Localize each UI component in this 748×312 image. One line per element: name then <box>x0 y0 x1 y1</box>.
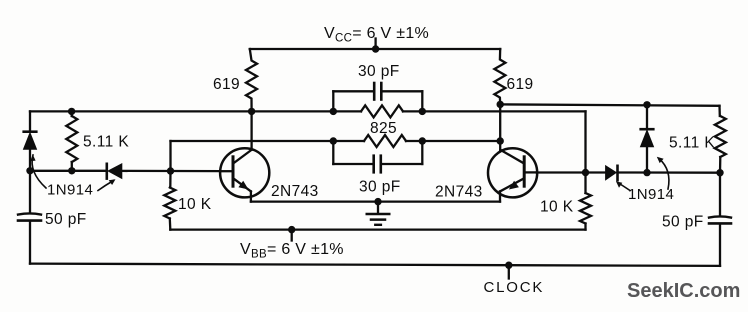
wire: clock label tick <box>508 265 510 278</box>
node: clock tap <box>505 262 512 269</box>
wire: right base rail inner <box>537 171 606 173</box>
svg-text:825: 825 <box>370 120 397 137</box>
wire: bottom cap loop left arm <box>333 163 373 165</box>
wire: Vcc supply rail <box>250 48 500 50</box>
wire: D4 upper segment <box>646 105 648 128</box>
resistor R6 825 (bottom coupling) <box>364 135 406 147</box>
svg-text:1N914: 1N914 <box>628 186 674 203</box>
resistor R8 10K (right base bias) <box>580 193 591 224</box>
wire: Vbb label tick <box>291 230 293 241</box>
wire: Q2 collector riser <box>499 104 501 149</box>
svg-text:30 pF: 30 pF <box>358 63 400 80</box>
node: Vbb tap <box>288 226 295 233</box>
diode D2 1N914 (left series, pointing left) <box>107 164 122 179</box>
wire: bottom cap loop left leg <box>332 141 334 164</box>
transistor Q1 2N743 <box>220 148 269 197</box>
svg-text:2N743: 2N743 <box>435 184 483 201</box>
wire: left clamp to cap <box>29 171 31 213</box>
transistor Q2 2N743 <box>488 148 537 197</box>
wire: R2 top lead <box>70 111 73 116</box>
wire: R7 bottom lead <box>719 157 722 173</box>
resistor R5 10K (left base bias) <box>164 188 175 219</box>
node: ground junction <box>374 198 381 205</box>
wire: bottom cap loop right arm <box>381 163 423 165</box>
svg-text:1N914: 1N914 <box>47 182 93 199</box>
wire: R5 bottom lead <box>169 219 172 230</box>
node: Q2 collector junction <box>497 101 504 108</box>
arrow: left 1N914 label to D2 <box>98 179 116 190</box>
capacitor C2 30pF (top coupling) <box>373 83 376 100</box>
wire: right clamp lower segment <box>719 224 721 266</box>
node: top loop left junction <box>330 108 337 115</box>
svg-text:10 K: 10 K <box>178 196 212 213</box>
diode D1 1N914 (left vertical clamp) <box>24 132 37 150</box>
svg-text:50 pF: 50 pF <box>662 214 704 231</box>
wire: right clamp upper segment <box>718 106 721 116</box>
wire: left clamp mid segment <box>29 149 31 171</box>
svg-text:5.11 K: 5.11 K <box>83 134 129 151</box>
arrow: left 1N914 label to D1 <box>30 155 46 188</box>
wire: top cap loop right leg <box>421 91 423 111</box>
resistor R2 5.11K (left) <box>66 116 77 162</box>
wire: bottom cap loop right leg <box>421 141 423 164</box>
wire: top cap loop left arm <box>333 90 374 92</box>
wire: left clamp lower segment <box>29 222 31 264</box>
wire: left base rail inner <box>122 170 221 173</box>
wire: right clamp to cap <box>719 173 721 216</box>
node: Q2 collector coupling junction <box>497 137 504 144</box>
wire: R5 top lead <box>169 171 171 188</box>
capacitor C1 50pF (left) <box>18 213 41 220</box>
wire: R8 top lead <box>584 173 586 194</box>
svg-text:SeekIC.com: SeekIC.com <box>627 280 740 302</box>
node: R2 bottom junction <box>68 167 75 174</box>
wire: R8 bottom lead <box>584 224 586 230</box>
wire: right base rail outer <box>618 171 720 173</box>
resistor R4 619 (right collector load) <box>494 49 505 104</box>
node: bottom loop left junction <box>330 137 337 144</box>
wire: Vcc label tick <box>374 39 376 50</box>
node: D4 top junction <box>643 101 650 108</box>
svg-text:619: 619 <box>507 76 534 93</box>
resistor R3 825 (top coupling) <box>361 105 403 117</box>
wire: left clamp upper segment <box>29 111 31 130</box>
ground symbol <box>367 202 389 225</box>
node: right clamp junction <box>716 169 723 176</box>
svg-text:CLOCK: CLOCK <box>484 279 545 296</box>
arrow: right 1N914 label to D3 <box>616 181 630 190</box>
node: bottom loop right junction <box>419 137 426 144</box>
wire: top cap loop right arm <box>381 90 422 92</box>
wire: left base rail outer <box>30 170 107 172</box>
node: left clamp junction <box>26 167 33 174</box>
wire: bottom coupling rail right <box>406 140 500 142</box>
wire: Vbb supply rail <box>170 228 585 230</box>
wire: emitter rail <box>251 200 500 202</box>
node: R2 top junction <box>68 108 75 115</box>
resistor R1 619 (left collector load) <box>246 49 257 111</box>
svg-text:619: 619 <box>213 76 240 93</box>
wire: bottom coupling rail left <box>171 140 365 142</box>
wire: top cap loop left leg <box>332 91 334 111</box>
svg-text:2N743: 2N743 <box>271 183 319 200</box>
wire: Q1 collector riser <box>250 111 252 149</box>
resistor R7 5.11K (right) <box>715 116 726 157</box>
wire: Q2 emitter drop <box>499 191 501 201</box>
svg-text:10 K: 10 K <box>540 199 574 216</box>
wire: right collector rail to clamp <box>500 104 719 105</box>
capacitor C4 50pF (right) <box>709 216 731 223</box>
wire: Q1 emitter drop <box>250 191 252 201</box>
svg-text:50 pF: 50 pF <box>45 211 87 228</box>
node: Q2 base junction <box>582 169 589 176</box>
wire: drop to Q2 base node <box>584 111 586 172</box>
wire: R2 bottom lead <box>71 162 73 171</box>
wire: D4 lower segment <box>646 147 648 173</box>
diode D4 1N914 (right vertical clamp) <box>641 129 654 147</box>
wire: left collector rail <box>30 110 361 112</box>
arrow: right 1N914 label to D4 <box>657 157 669 189</box>
svg-text:30 pF: 30 pF <box>359 179 401 196</box>
wire: riser from Q1 base node <box>169 141 171 171</box>
diode D3 1N914 (right series, pointing right) <box>606 166 618 180</box>
node: D4 bottom junction <box>643 169 650 176</box>
node: Q1 collector junction <box>248 108 255 115</box>
node: top loop right junction <box>419 108 426 115</box>
svg-text:5.11 K: 5.11 K <box>669 135 715 152</box>
wire: top coupling rail to Q2 base <box>403 110 586 112</box>
node: Vcc tap <box>372 45 379 52</box>
wire: bottom output rail <box>30 264 720 266</box>
node: Q1 base junction <box>167 167 174 174</box>
capacitor C3 30pF (bottom coupling) <box>372 156 375 173</box>
